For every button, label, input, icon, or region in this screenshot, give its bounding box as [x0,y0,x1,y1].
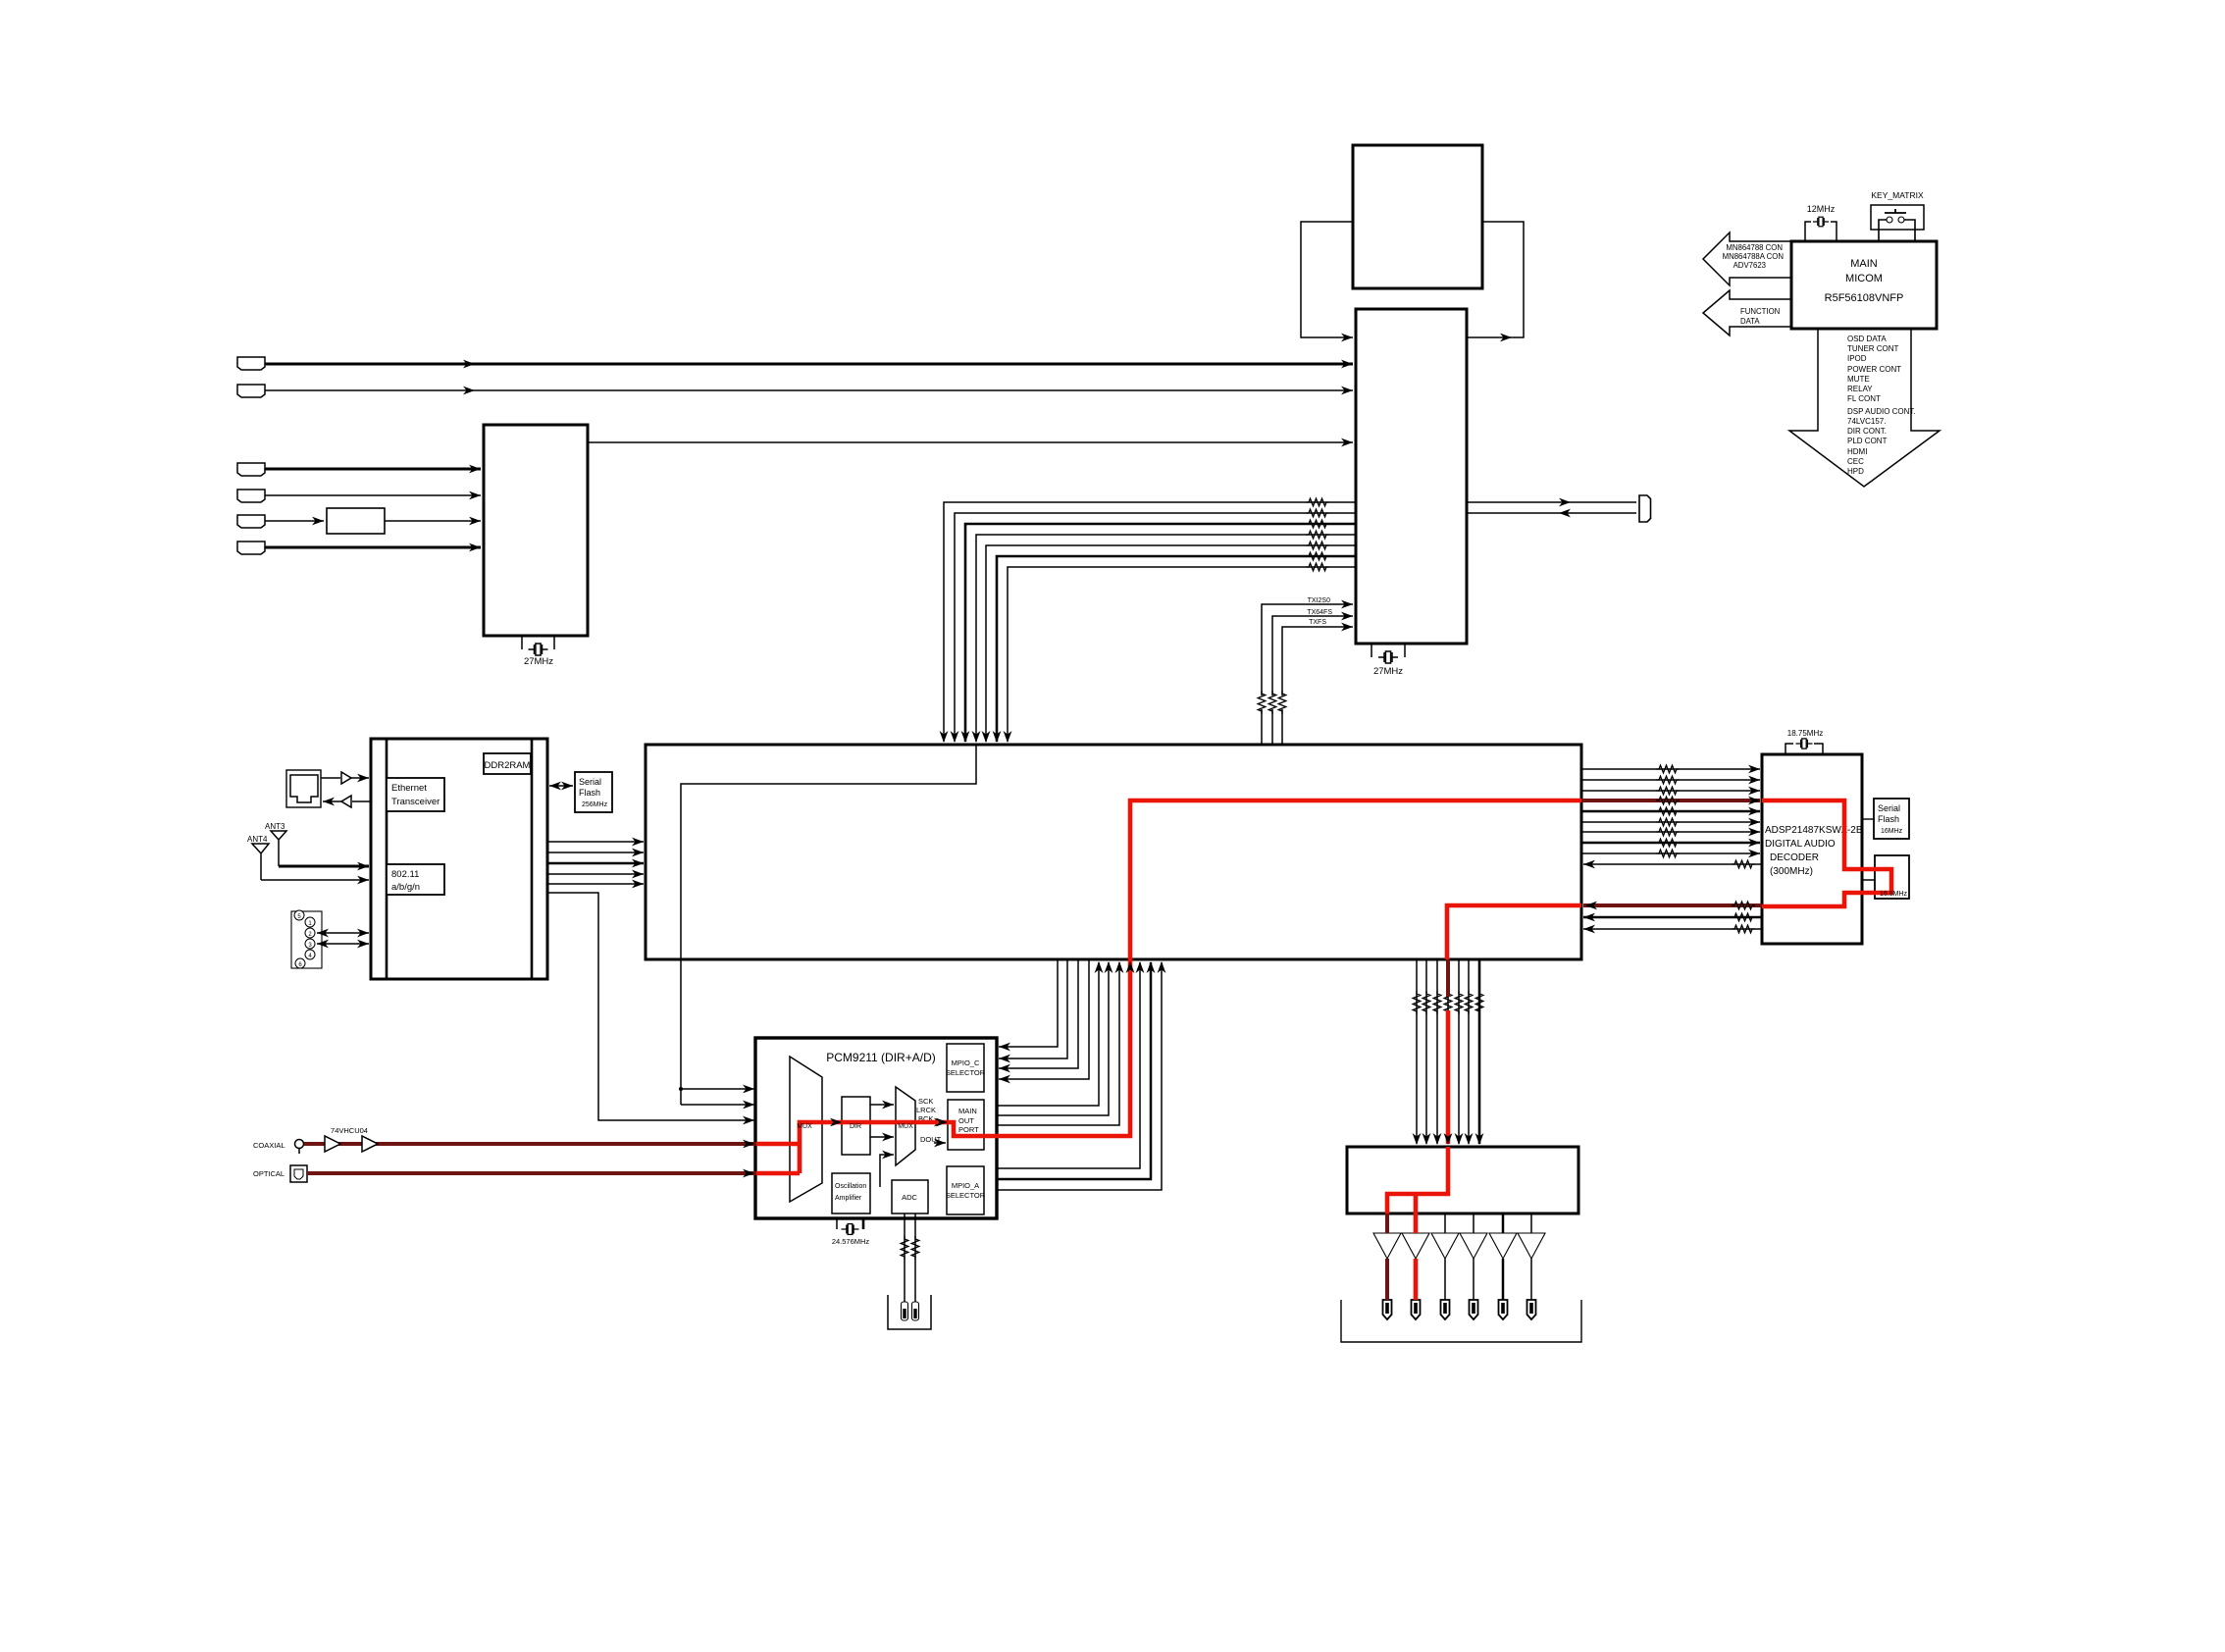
serial flash box U8 [575,772,612,812]
svg-text:ADSP21487KSWZ-2B: ADSP21487KSWZ-2B [1765,825,1863,836]
svg-text:TX64FS: TX64FS [1307,609,1332,616]
wire DSP down 1 [1416,959,1418,1144]
arrow plug in [1559,509,1571,518]
wire DSP to ADSP 6 [1581,821,1760,823]
network module U7 [371,739,547,979]
red wire inside ADSP to SPDIF box [1762,800,1891,906]
wire pin2 to module (bidir) [317,932,369,934]
wire coaxial input (dark red) [304,1142,756,1146]
mux1 trapezoid [790,1057,822,1202]
arrow coaxial into PCM [743,1140,754,1149]
svg-text:TXFS: TXFS [1309,619,1326,626]
bus wire 4 [976,535,1356,742]
svg-text:MUX: MUX [898,1123,913,1130]
antenna ANT3 [271,831,286,866]
arrow wire1 down [940,731,949,743]
svg-text:Transceiver: Transceiver [391,797,440,807]
wire loop right (U5 to U4) [1467,222,1524,337]
resistor R2 [1306,509,1329,517]
wire DSP to MPIO_C 2 [999,959,1067,1058]
red wire ADSP back to DSP (dark) [1583,903,1762,907]
wire module to serial flash (bidir) [549,785,573,787]
arrow wire5 down [982,731,991,743]
arrow riser 3 [1115,961,1124,973]
svg-text:12MHz: 12MHz [1807,204,1836,214]
svg-text:LRCK: LRCK [916,1106,936,1114]
pin 1 [305,917,315,927]
stub DAC out 6 [1530,1213,1532,1233]
wire PCM mpioa to DSP 2 (thick) [984,962,1151,1179]
wire J4 to decoder box [265,494,481,496]
resistor R6 [1306,552,1329,560]
DSP main box U9 [646,745,1581,959]
wire buffer rx to RJ45 [323,800,341,802]
RJ45 inner [290,775,318,802]
DAC box U14 [1347,1147,1578,1213]
wire mux2 to main out port (BCK) [915,1121,946,1123]
switch contact right [1898,217,1904,223]
internal wire via DSP to PCM [681,745,976,1105]
pin 4 [305,950,315,959]
svg-text:COAXIAL: COAXIAL [253,1141,285,1150]
red wire DSP to DAC (dark upper) [1446,959,1450,997]
mic bracket [888,1295,931,1329]
arrow mid wire J2 [463,387,475,395]
resistor R10 [1278,691,1286,714]
block arrow MN864788 [1703,232,1791,285]
svg-text:TUNER CONT: TUNER CONT [1847,344,1899,353]
pin 5 [294,910,304,920]
crystal X5 bracket left [836,1218,838,1229]
resistor R13 [1656,787,1680,795]
svg-text:SELECTOR: SELECTOR [946,1068,986,1077]
red wire dout riser to DSP [984,959,1130,1136]
wire RJ45 tx [321,777,340,779]
resistor R23 [1413,991,1421,1014]
resistor R20 [1732,860,1755,868]
wire ADC out L [904,1213,906,1302]
svg-text:FUNCTION: FUNCTION [1740,307,1780,316]
svg-text:DIR CONT.: DIR CONT. [1847,427,1887,436]
wire J2 to video box [265,389,1353,391]
connector tab J1 [237,357,265,370]
svg-text:16.8MHz: 16.8MHz [1880,891,1908,898]
plug connector P1 [1639,495,1651,522]
svg-text:MICOM: MICOM [1845,273,1883,284]
arrow DOUT [934,1142,946,1144]
svg-text:802.11: 802.11 [391,869,419,880]
svg-text:74VHCU04: 74VHCU04 [331,1126,368,1135]
resistor R22 [1732,925,1755,933]
resistor R18 [1656,839,1680,847]
speaker bracket [1341,1300,1581,1342]
arrow red into DAC [1444,1133,1453,1145]
svg-text:Ethernet: Ethernet [391,783,427,794]
wire PCM main out to DSP 3 [984,962,1119,1125]
crystal X2 27MHz [1378,651,1398,663]
crystal X1 bracket [522,636,554,649]
wire ADSP to serial flash [1862,818,1874,820]
connector tab J4 [237,490,265,502]
802.11 box [387,864,444,895]
bus wire 2 [955,513,1356,742]
wire DSP to ADSP 2 [1581,779,1760,781]
wire ANT3 to module (thick) [279,865,369,868]
svg-text:IPOD: IPOD [1847,354,1867,363]
crystal X1 27MHz [529,644,548,655]
buffer 74VHCU04 a [325,1136,340,1152]
resistor R5 [1306,542,1329,549]
buffer tx [341,772,351,784]
red stub amp2 [1414,1213,1419,1233]
svg-text:DIR: DIR [850,1123,861,1130]
arrow wire6 down [993,731,1002,743]
arrow wire3 down [961,731,970,743]
oscillation amplifier box [832,1173,870,1213]
ADC box [892,1180,928,1213]
arrow dout riser into DSP (over red) [1126,961,1135,973]
block arrow down control signals [1789,329,1940,487]
pin header J8 [291,911,322,968]
svg-text:27MHz: 27MHz [1373,666,1403,677]
arrow red into ADSP [1748,797,1760,805]
arrow wire2 down [951,731,959,743]
optical inner [294,1169,303,1179]
svg-text:OPTICAL: OPTICAL [253,1169,285,1178]
svg-text:MUX: MUX [797,1123,812,1130]
wire DSP to ADSP 7 [1581,831,1760,833]
wire optical input (dark red) [307,1171,756,1175]
crystal X4 bracket [1785,744,1823,754]
svg-text:PLD CONT: PLD CONT [1847,437,1888,445]
svg-text:MN864788A CON: MN864788A CON [1723,252,1784,261]
RJ45 jack J7 [286,770,321,807]
connector tab J3 [237,463,265,476]
svg-text:24.576MHz: 24.576MHz [832,1237,870,1246]
svg-text:Flash: Flash [579,788,600,798]
stub DAC out 5 (thick) [1502,1213,1505,1233]
wire TXI2S0 [1262,604,1353,745]
svg-text:DATA: DATA [1740,317,1760,326]
wire ADC out R [914,1213,916,1302]
svg-text:SELECTOR: SELECTOR [946,1191,986,1200]
wire module to DSP 3 (thick) [547,862,644,865]
crystal X3 bracket [1805,222,1837,241]
svg-text:RELAY: RELAY [1847,385,1873,393]
mic jack tag L [902,1302,908,1320]
svg-text:ANT4: ANT4 [247,835,268,844]
wire J5 to filter box [265,520,324,522]
svg-text:OSD DATA: OSD DATA [1847,335,1887,343]
wire DSP to MPIO_C 3 [999,959,1078,1068]
arrow MPIO_C 2 [999,1055,1010,1063]
speaker jack 1 [1383,1300,1392,1319]
red wire inside PCM to main out port [756,1122,984,1173]
svg-text:CEC: CEC [1847,457,1864,466]
node split PCM feed [679,1087,683,1091]
wire ANT4 to module [261,879,369,881]
svg-text:PCM9211 (DIR+A/D): PCM9211 (DIR+A/D) [826,1051,935,1064]
svg-text:Serial: Serial [1878,803,1900,813]
resistor R11 [1656,765,1680,773]
svg-text:PORT: PORT [958,1125,979,1134]
svg-text:TXI2S0: TXI2S0 [1308,597,1330,604]
amp triangle 6 [1518,1233,1545,1259]
pin 6 [295,958,305,968]
svg-text:ADC: ADC [902,1193,917,1202]
svg-text:18.75MHz: 18.75MHz [1787,729,1823,738]
crystal X2 bracket [1371,644,1405,657]
svg-text:256MHz: 256MHz [582,801,608,808]
wire DSP to ADSP 8 (thick) [1581,842,1760,845]
resistor R32 [1732,902,1755,909]
stub DAC out 4 [1473,1213,1475,1233]
arrow wire7 down [1004,731,1012,743]
wire J6 to decoder box (thick) [265,546,481,549]
wire ADSP to DSP 10 [1583,863,1762,865]
resistor R30 [901,1236,908,1260]
resistor R17 [1656,828,1680,836]
wire TXFS [1282,627,1353,745]
wire ADC to mux2 [880,1155,894,1187]
arrow wire4 down [972,731,981,743]
speaker jack 4 [1470,1300,1478,1319]
wire pin3 to module (bidir) [317,943,369,945]
mic jack tag R [912,1302,919,1320]
serial flash 16MHz box U11 [1874,799,1909,839]
bus wire 1 U5 to DSP with resistor [944,502,1356,742]
arrow down 7 [1475,1133,1484,1145]
crystal X5 bracket right (thick) [862,1218,865,1229]
red wire DSP to ADSP (dark) [1581,799,1760,802]
arrow down 5 [1455,1133,1464,1145]
wire U3 output to video box [588,441,1353,443]
wire to PCM in1 [681,1088,754,1090]
resistor R26 [1444,991,1452,1014]
crystal X5 24.576MHz [842,1224,859,1235]
arrow MPIO_C 4 [999,1075,1010,1084]
svg-text:DECODER: DECODER [1770,852,1819,863]
wire J3 to decoder box (thick) [265,468,481,471]
wire DSP to MPIO_C 1 [999,959,1058,1047]
wire DSP to ADSP 1 [1581,768,1760,770]
wire buffer tx to module [351,777,369,779]
mux2 trapezoid [896,1087,915,1165]
key matrix box S1 [1871,205,1924,230]
wire amp5 to jack (thick) [1502,1259,1505,1300]
arrow riser 5 [1136,961,1145,973]
resistor R28 [1465,991,1473,1014]
amp triangle 3 [1431,1233,1459,1259]
wire DSP to MPIO_C 4 [999,959,1089,1079]
arrow MUX1 to DIR (over red) [830,1118,842,1127]
module inner partition right [531,739,534,979]
resistor R21 [1732,913,1755,921]
amp triangle 5 [1489,1233,1517,1259]
module inner partition left [386,739,388,979]
video box U4 (upper square) [1353,145,1482,288]
resistor R1 [1306,498,1329,506]
svg-text:Amplifier: Amplifier [835,1195,862,1202]
optical connector [290,1165,307,1182]
wire PCM main out to DSP 2 [984,962,1109,1115]
red wire inside DSP to ADSP [1130,800,1581,961]
wire DSP to ADSP 5 (thick) [1581,810,1760,813]
svg-text:MN864788 CON: MN864788 CON [1726,243,1783,252]
wire PCM mpioa to DSP 3 [984,962,1162,1190]
speaker jack 3 [1441,1300,1450,1319]
svg-text:(300MHz): (300MHz) [1770,866,1813,877]
arrow on right loop [1500,334,1512,342]
resistor R24 [1423,991,1430,1014]
svg-text:MUTE: MUTE [1847,375,1870,384]
arrow riser 1 [1095,961,1104,973]
wire amp4 to jack [1473,1259,1475,1300]
svg-text:FL CONT: FL CONT [1847,394,1881,403]
resistor R3 [1306,520,1329,528]
wire PCM dout to DSP (red over) [984,962,1130,1136]
svg-text:OUT: OUT [958,1116,974,1125]
speaker jack 6 [1527,1300,1536,1319]
resistor R15 [1656,807,1680,815]
wire DSP down 7 (thick) [1478,959,1481,1144]
wire amp3 to jack [1444,1259,1446,1300]
resistor R12 [1656,776,1680,784]
svg-text:R5F56108VNFP: R5F56108VNFP [1825,292,1904,304]
MAIN OUT PORT box [948,1100,984,1150]
red wire DSP to DAC (bright lower) [1446,1010,1451,1144]
svg-text:Flash: Flash [1878,814,1899,824]
resistor R31 [911,1236,919,1260]
wire module to DSP 2 [547,852,644,853]
svg-text:MPIO_A: MPIO_A [952,1181,979,1190]
svg-text:DIGITAL AUDIO: DIGITAL AUDIO [1765,839,1836,850]
arrow mid wire J1 [463,360,475,369]
resistor R16 [1656,818,1680,826]
coaxial connector [295,1140,304,1149]
svg-text:16MHz: 16MHz [1881,828,1903,835]
wire module rx [352,800,371,802]
svg-text:a/b/g/n: a/b/g/n [391,882,420,893]
svg-text:74LVC157.: 74LVC157. [1847,417,1886,426]
crystal X4 18.75MHz [1796,739,1813,749]
arrow plug out [1559,498,1571,507]
svg-text:Oscillation: Oscillation [835,1183,866,1190]
connector tab J2 [237,385,265,397]
buffer 74VHCU04 b [362,1136,378,1152]
arrow down 3 [1433,1133,1442,1145]
red wire inside DSP down [1447,905,1581,959]
wire ADSP to DSP 13 [1583,928,1762,930]
pin 3 [305,939,315,949]
resistor R19 [1656,850,1680,857]
MPIO_A selector box [947,1166,984,1214]
arrow down 1 [1413,1133,1422,1145]
antenna ANT4 [252,844,269,880]
svg-text:HPD: HPD [1847,467,1864,476]
pin 2 [305,928,315,938]
svg-text:Serial: Serial [579,777,601,787]
wire amp6 to jack [1530,1259,1532,1300]
wire plug to U5 in [1467,512,1636,514]
svg-text:ADV7623: ADV7623 [1733,261,1766,270]
MAIN MICOM U6 [1791,241,1937,329]
resistor R8 [1258,691,1266,714]
arrow BCK into port (over red) [936,1118,948,1127]
svg-text:DDR2RAM: DDR2RAM [485,760,531,771]
red stub amp1 (dark) [1385,1213,1389,1233]
amp triangle 2 [1402,1233,1429,1259]
speaker jack 5 [1499,1300,1508,1319]
HDMI box U5 (tall box) [1356,309,1467,644]
svg-text:KEY_MATRIX: KEY_MATRIX [1871,190,1924,200]
buffer rx [341,796,351,807]
wire DSP down 6 [1468,959,1470,1144]
wire U5 to plug out [1467,501,1636,503]
filter box U2 [327,508,385,534]
coaxial stem [298,1149,300,1154]
stub DAC out 3 [1444,1213,1446,1233]
wire DSP to ADSP 4 (red I2S under) [1581,800,1760,801]
PCM9211 box U13 [755,1038,997,1218]
red wire amp2 to jack [1414,1259,1419,1300]
DIR box [842,1097,870,1155]
wire filter box to decoder box [385,520,481,522]
wire to PCM in2 [681,1104,754,1106]
wire ADSP to U12 [1862,879,1875,881]
MPIO_C selector box [947,1044,984,1092]
arrow DIR to mux2 lower [870,1136,894,1138]
wire DSP down 5 [1458,959,1460,1144]
wire module to DSP 5 [547,883,644,885]
svg-text:POWER CONT: POWER CONT [1847,365,1901,374]
svg-text:DSP AUDIO CONT.: DSP AUDIO CONT. [1847,407,1916,416]
wire DSP down 4 (red over) [1447,959,1449,1144]
arrow down 2 [1423,1133,1431,1145]
arrow riser 7 [1158,961,1166,973]
Ethernet Transceiver box [387,778,444,811]
svg-text:MPIO_C: MPIO_C [952,1058,980,1067]
arrow optical into PCM [743,1169,754,1178]
wire PCM main out to DSP 1 [984,962,1099,1106]
svg-text:SCK: SCK [918,1097,933,1106]
wire module to DSP 4 [547,873,644,875]
arrow riser 2 [1105,961,1113,973]
resistor R14 [1656,797,1680,804]
arrow DIR to mux2 upper [870,1104,894,1106]
wire DSP to ADSP 9 [1581,852,1760,854]
wire module to DSP 1 [547,841,644,843]
resistor R25 [1433,991,1441,1014]
resistor R27 [1455,991,1463,1014]
arrow red into DSP [1585,902,1597,910]
wire DSP to ADSP 3 [1581,790,1760,792]
resistor R9 [1268,691,1276,714]
decoder box U3 [484,425,588,636]
svg-text:ANT3: ANT3 [265,822,285,831]
bus wire 3 (thick) [965,524,1356,742]
arrow MPIO_C 3 [999,1064,1010,1073]
arrow MPIO_C 1 [999,1043,1010,1052]
wire DSP down 3 [1436,959,1438,1144]
bus wire 5 [986,545,1356,742]
resistor R4 [1306,531,1329,539]
switch contact left [1887,217,1892,223]
svg-text:27MHz: 27MHz [524,656,553,667]
wire ADSP to DSP 12 (thick) [1583,916,1762,919]
SPDIF box U12 [1875,855,1909,899]
red wire inside DAC [1387,1147,1448,1213]
